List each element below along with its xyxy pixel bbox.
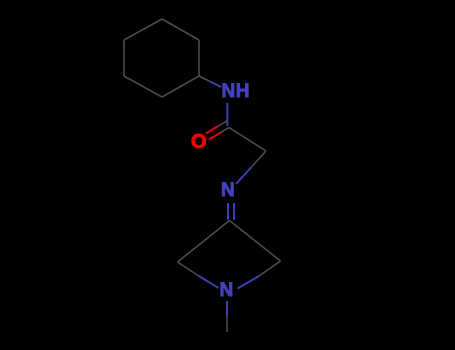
bond N-CH3 (C side)	[226, 315, 228, 332]
bond CH2-N (N side)	[236, 168, 251, 185]
piperidine ring edge C4-R	[230, 221, 281, 262]
piperidine ring edge L-N (N side)	[198, 276, 219, 289]
piperidine ring edge L-N (C side)	[178, 262, 199, 276]
wire ring edge T-UL	[124, 19, 162, 40]
imine N=C double bond right line	[233, 203, 235, 220]
amide NH label	[222, 81, 250, 103]
wire ring edge B-LR	[162, 76, 199, 97]
imine N label	[221, 180, 235, 202]
bond C-CH2	[229, 128, 266, 152]
bond CH2-N (C side)	[251, 151, 266, 168]
piperidine ring edge R-N (N side)	[238, 276, 260, 289]
wire ring edge UL-LL	[123, 40, 125, 76]
piperidine ring edge R-N (C side)	[259, 261, 281, 276]
carbonyl C=O double bond lower line	[221, 128, 229, 133]
imine N=C double bond left line	[227, 203, 229, 220]
piperidine N label	[220, 280, 234, 302]
wire ring edge LL-B	[124, 76, 162, 97]
bond ring-NH (C side)	[199, 76, 210, 82]
carbonyl C=O double bond upper line	[218, 121, 228, 127]
bond N-CH3 (N side)	[226, 301, 228, 315]
bond NH-C carbonyl	[226, 103, 228, 126]
cyclohexyl ring (top)	[124, 19, 199, 97]
bond ring-NH (N side)	[210, 82, 221, 88]
wire ring edge UR-T	[162, 19, 199, 40]
carbonyl O label	[191, 131, 207, 154]
piperidine ring edge C4-L	[178, 221, 230, 263]
wire ring edge LR-UR	[198, 40, 200, 76]
